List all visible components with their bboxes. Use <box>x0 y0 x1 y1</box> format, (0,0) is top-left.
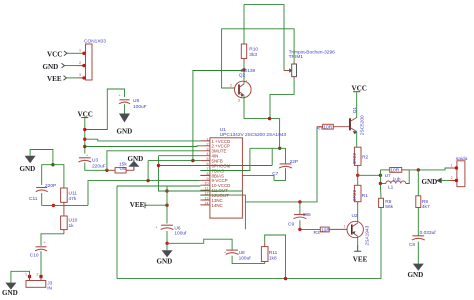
resistor R11 1k8 <box>261 242 277 263</box>
svg-text:R10: R10 <box>249 47 258 53</box>
resistor R8 56k <box>379 182 394 279</box>
wire R1 bottom to U2 collector <box>357 205 359 223</box>
wire U3/U5 node to IC pin 3 <box>105 151 200 172</box>
node VCC at Q1 <box>352 85 367 118</box>
wire VEE column to U6 <box>166 186 168 224</box>
svg-text:U7: U7 <box>385 173 391 179</box>
svg-text:14: 14 <box>205 201 209 205</box>
svg-text:10R: 10R <box>323 125 332 131</box>
wire IC pin 6 row to C7 <box>157 148 272 191</box>
svg-text:11: 11 <box>205 187 209 191</box>
svg-text:220P: 220P <box>45 183 56 189</box>
wire output rail to saida <box>409 168 456 172</box>
wire IC pin 7 row to C7 <box>200 148 250 170</box>
svg-text:1: 1 <box>451 164 453 168</box>
wire trimpot top to Q2 base <box>222 29 295 88</box>
connector J2 saida <box>450 156 468 187</box>
svg-text:IN: IN <box>47 286 52 292</box>
svg-text:GND: GND <box>128 155 144 163</box>
svg-text:1: 1 <box>344 225 346 229</box>
wire Q2 emitter row to C7 <box>244 117 280 147</box>
svg-text:1k: 1k <box>69 223 75 229</box>
svg-text:14NC: 14NC <box>212 203 223 208</box>
resistor R7 10R <box>317 124 351 132</box>
wire output node to U7/L1 <box>379 170 382 184</box>
svg-text:220uF: 220uF <box>92 163 106 169</box>
transistor Q2 <box>230 63 255 119</box>
resistor R2 0R22 <box>352 147 368 173</box>
ground symbol under U9 <box>117 114 133 136</box>
svg-text:685: 685 <box>303 212 311 218</box>
ground symbol at J3 <box>2 283 18 298</box>
svg-text:56k: 56k <box>385 204 393 210</box>
capacitor U9 100uF <box>119 94 147 114</box>
resistor U11 47k <box>61 188 78 205</box>
wire input node (C11/U11/U10) <box>42 204 88 207</box>
wire bottom rail <box>117 277 381 280</box>
svg-text:UPC1342V 2SC5200 2SA1943: UPC1342V 2SC5200 2SA1943 <box>220 132 287 138</box>
svg-text:4k7: 4k7 <box>422 204 430 210</box>
svg-text:2: 2 <box>451 176 453 180</box>
node GND (connector pin 2 label) <box>43 63 78 71</box>
node VCC (connector pin 1 label) <box>47 51 78 59</box>
resistor R3 10R <box>314 227 348 236</box>
svg-text:4: 4 <box>207 152 209 156</box>
svg-text:Q1: Q1 <box>352 107 358 114</box>
svg-text:R11: R11 <box>269 250 278 256</box>
wire IC pin 10 row to bottom rail <box>117 186 200 279</box>
wire J3 pin1 to ground <box>11 271 30 282</box>
wire IC pin 12 row to R7 column and C9 <box>200 127 317 230</box>
svg-text:+: + <box>86 154 88 158</box>
svg-text:1uh: 1uh <box>393 177 401 183</box>
svg-text:10R: 10R <box>390 168 399 174</box>
node VEE flag at IC <box>130 201 169 209</box>
svg-text:3: 3 <box>207 147 209 151</box>
transistor Q1 2SC5200 <box>350 107 365 148</box>
svg-text:2: 2 <box>207 142 209 146</box>
svg-text:3: 3 <box>79 73 81 77</box>
inductor L1 1uh <box>380 170 409 191</box>
svg-text:13: 13 <box>205 197 209 201</box>
svg-text:GND: GND <box>20 165 36 173</box>
wire R2/R1 junction <box>356 173 380 187</box>
svg-text:22P: 22P <box>290 159 299 165</box>
ground symbol at C11/U11 top <box>20 150 53 174</box>
svg-text:L1: L1 <box>388 185 394 191</box>
svg-text:2SC5200: 2SC5200 <box>359 115 365 135</box>
svg-text:9: 9 <box>207 177 209 181</box>
wire NFB loop to R10 bottom <box>193 68 246 161</box>
svg-text:C10: C10 <box>30 252 39 258</box>
svg-text:U11: U11 <box>69 191 78 197</box>
svg-text:1: 1 <box>79 49 81 53</box>
op-amp IC U1 UPC1342V <box>210 127 287 218</box>
svg-text:0R22: 0R22 <box>352 153 358 165</box>
svg-text:47k: 47k <box>69 196 77 202</box>
wire input node riser to IC pin 9 row and pin 5 column <box>88 161 274 206</box>
svg-text:VEE: VEE <box>353 256 368 264</box>
capacitor U6 100uf <box>156 225 188 243</box>
wire VCC to U9 <box>83 89 124 131</box>
svg-text:1k8: 1k8 <box>269 256 277 262</box>
capacitor C9 685 <box>288 202 311 230</box>
svg-text:VEE: VEE <box>47 75 62 83</box>
svg-text:1: 1 <box>246 80 248 84</box>
svg-text:100uF: 100uF <box>133 104 147 110</box>
capacitor C11 220P <box>29 183 56 205</box>
svg-text:C8: C8 <box>409 242 415 248</box>
svg-text:+: + <box>119 94 121 98</box>
trimpot TRIM1 Trimpot-Bochen-3296 <box>284 49 335 79</box>
svg-text:U2: U2 <box>352 213 358 219</box>
wire IC pin 9 row to C7 bottom <box>274 168 286 180</box>
wire VCC to IC pin 2 <box>83 145 200 148</box>
svg-text:2: 2 <box>79 61 81 65</box>
node VEE (connector pin 3 label) <box>47 75 78 83</box>
svg-text:TRIM1: TRIM1 <box>289 54 304 60</box>
svg-text:1: 1 <box>207 137 209 141</box>
svg-text:R3: R3 <box>314 230 320 236</box>
svg-text:GND: GND <box>422 178 438 186</box>
svg-text:0.033uf: 0.033uf <box>420 230 437 236</box>
svg-text:GND: GND <box>117 128 133 136</box>
wire U6 bottom node <box>165 239 232 251</box>
svg-text:GND: GND <box>2 289 18 297</box>
svg-text:+: + <box>156 226 158 230</box>
svg-text:3k3: 3k3 <box>249 52 257 58</box>
svg-text:U5: U5 <box>120 166 126 172</box>
wire R11 top to bottom rail <box>265 235 286 279</box>
svg-text:GND: GND <box>43 63 59 71</box>
svg-text:GND: GND <box>408 271 424 279</box>
capacitor C7 22P <box>250 147 298 177</box>
svg-text:U10: U10 <box>69 218 78 224</box>
svg-text:U8: U8 <box>239 250 245 256</box>
ground symbol under C8 <box>408 264 424 280</box>
wire GND node to C11 and U11 <box>42 163 64 188</box>
svg-text:+: + <box>44 241 46 245</box>
capacitor C10 <box>30 234 64 276</box>
resistor U7 10R <box>380 168 409 179</box>
resistor R1 0R22 <box>352 185 368 205</box>
svg-text:2: 2 <box>230 84 232 88</box>
svg-text:8: 8 <box>207 172 209 176</box>
resistor R9 4k7 <box>416 170 430 236</box>
IC U1 pin stubs and numbers <box>200 137 210 205</box>
svg-text:C11: C11 <box>29 196 38 202</box>
resistor R10 3k3 <box>241 5 258 63</box>
svg-text:100uf: 100uf <box>239 256 252 262</box>
svg-text:GND: GND <box>157 257 173 265</box>
wire IC pin 11 row <box>165 189 242 192</box>
wire R10 top to trimpot wiper <box>244 5 284 71</box>
wire trimpot bottom to Q2 emitter node <box>270 79 294 118</box>
node GND flag at saida pin 2 <box>422 178 451 186</box>
svg-text:10: 10 <box>205 182 209 186</box>
svg-text:Q2: Q2 <box>239 72 246 78</box>
svg-text:1: 1 <box>25 272 27 276</box>
wire IC pin 5 NFB row <box>148 159 200 162</box>
ground symbol under U6 <box>157 250 173 265</box>
svg-text:0R22: 0R22 <box>352 189 358 201</box>
capacitor C8 0.033uf <box>409 230 436 264</box>
node VEE under U2 <box>353 245 368 264</box>
svg-text:U9: U9 <box>133 98 139 104</box>
svg-text:U3: U3 <box>92 158 98 164</box>
svg-text:U6: U6 <box>174 225 180 231</box>
capacitor U3 220uF <box>78 154 107 171</box>
node VCC rail label <box>78 111 93 154</box>
connector CON1X03 J1 <box>78 39 107 81</box>
svg-text:3: 3 <box>238 99 240 103</box>
svg-text:5: 5 <box>207 157 209 161</box>
svg-text:10R: 10R <box>321 227 330 233</box>
svg-text:VCC: VCC <box>47 51 62 59</box>
transistor U2 2SA1943 <box>344 213 371 246</box>
resistor U5 15k <box>107 161 134 173</box>
IC U1 pin names <box>212 139 231 208</box>
connector J3 IN <box>25 272 53 291</box>
wire VCC to IC pin 1 <box>83 138 200 141</box>
svg-text:VEE: VEE <box>130 201 145 209</box>
capacitor U8 100uf <box>224 250 265 264</box>
svg-text:R2: R2 <box>362 154 368 160</box>
svg-text:2SA1943: 2SA1943 <box>365 225 371 245</box>
wire C9 bottom node to R3 <box>298 228 320 231</box>
ground symbol at U5 <box>128 155 144 171</box>
resistor U10 1k <box>61 205 78 233</box>
svg-text:2: 2 <box>37 272 39 276</box>
svg-text:C7: C7 <box>272 171 278 177</box>
svg-text:100uf: 100uf <box>174 231 187 237</box>
svg-text:R1: R1 <box>362 193 368 199</box>
svg-text:C9: C9 <box>288 221 294 227</box>
